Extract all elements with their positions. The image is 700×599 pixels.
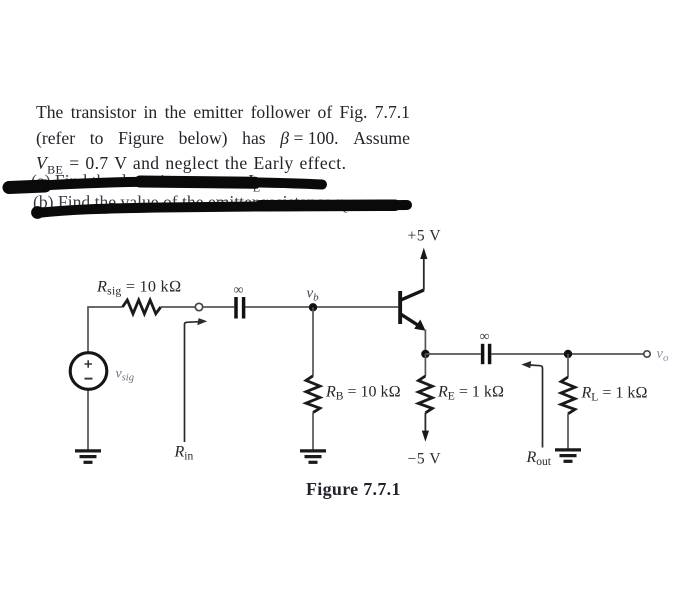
resistor Rsig: [123, 300, 161, 314]
capacitor C1 (infinity): [234, 283, 244, 319]
problem statement paragraph: [36, 100, 410, 182]
resistor RL: [561, 377, 575, 414]
svg-text:−5 V: −5 V: [408, 451, 442, 468]
redacted line (a): [31, 171, 265, 198]
voltage source Vsig: [70, 353, 107, 390]
emitter arrowhead: [414, 320, 425, 331]
svg-text:Rin: Rin: [174, 444, 194, 463]
arrow to -5V: [422, 431, 429, 442]
wire: RE down: [424, 413, 426, 432]
wire: RL to ground: [567, 414, 569, 449]
arrow to +5V: [420, 248, 427, 259]
svg-text:Rsig = 10 kΩ: Rsig = 10 kΩ: [96, 278, 182, 298]
wire: open node to C1: [203, 306, 235, 308]
wire: emitter node to C2: [425, 353, 480, 355]
resistor RE: [418, 376, 432, 413]
wire: node down to RL: [567, 354, 569, 377]
redacted line (b): [33, 192, 353, 219]
wire: top horizontal, corner to Rsig: [87, 306, 122, 308]
Rin probe arrow: [185, 318, 208, 442]
svg-text:∞: ∞: [234, 283, 244, 298]
node vb: [309, 303, 317, 311]
transistor Q1: [398, 290, 425, 331]
caption Figure 7.7.1: [306, 479, 401, 500]
wire: vb down to RB: [312, 307, 314, 376]
svg-text:+5 V: +5 V: [408, 228, 442, 245]
wire: C2 to output: [491, 353, 643, 355]
redaction stroke b: [31, 205, 407, 219]
svg-text:vo: vo: [657, 346, 669, 364]
node: open terminal after Rsig: [195, 303, 202, 310]
svg-text:Rout: Rout: [526, 449, 552, 468]
resistor RB: [306, 376, 320, 413]
capacitor C2 (infinity): [480, 330, 490, 365]
wire: C1 to vb node and to base: [245, 306, 398, 308]
base bar: [398, 291, 402, 324]
node: output open terminal: [644, 351, 650, 357]
svg-text:vsig: vsig: [116, 367, 134, 384]
Rout probe arrow: [521, 361, 542, 448]
ground under RB: [300, 451, 326, 462]
wire: Rsig to open node: [161, 306, 196, 308]
ground under RL: [555, 450, 581, 461]
svg-text:RL = 1 kΩ: RL = 1 kΩ: [581, 385, 648, 404]
wire: source bottom to ground: [87, 390, 89, 450]
wire: top-left vertical from corner to source: [87, 307, 89, 353]
collector lead: [401, 290, 424, 300]
svg-text:∞: ∞: [480, 330, 490, 345]
emitter lead: [401, 314, 420, 326]
svg-text:RB = 10 kΩ: RB = 10 kΩ: [325, 384, 401, 403]
node: emitter: [421, 350, 429, 358]
wire: collector up: [423, 258, 425, 291]
node: RL top: [564, 350, 572, 358]
svg-text:RE = 1 kΩ: RE = 1 kΩ: [437, 384, 504, 403]
wire: RB to ground: [312, 413, 314, 450]
wire: emitter arrowhead to node: [424, 330, 426, 355]
wire: emitter node down to RE: [424, 354, 426, 376]
svg-text:vb: vb: [307, 286, 320, 304]
redaction stroke a: [8, 181, 322, 187]
ground under source: [75, 451, 101, 462]
